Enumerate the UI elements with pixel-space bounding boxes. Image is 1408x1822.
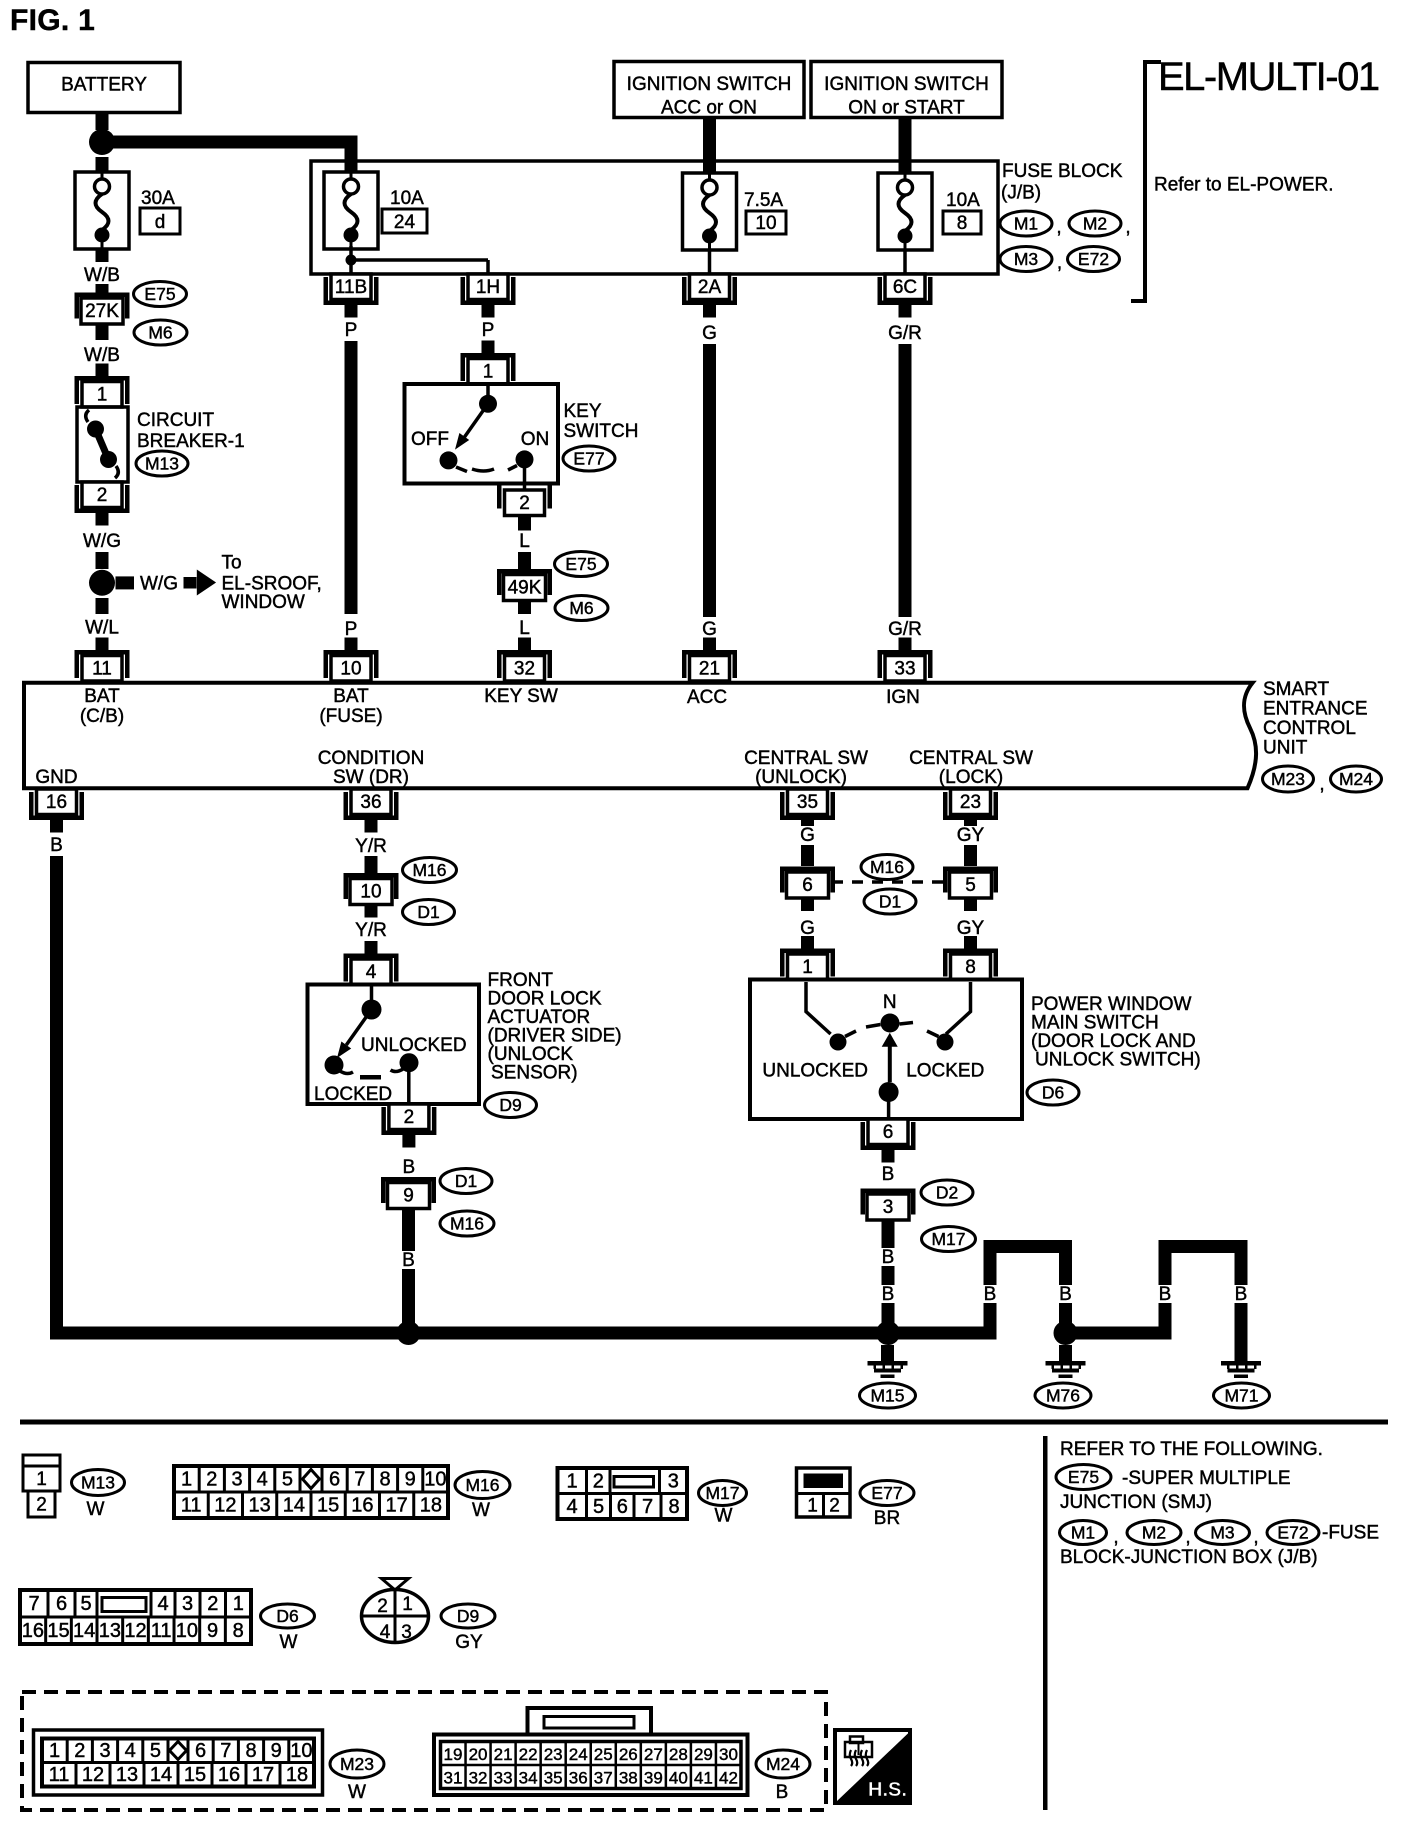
- svg-text:2: 2: [97, 485, 108, 506]
- svg-text:UNLOCKED: UNLOCKED: [762, 1061, 868, 1082]
- svg-text:2: 2: [829, 1496, 840, 1517]
- svg-text:ACC: ACC: [687, 687, 727, 708]
- svg-text:M17: M17: [931, 1229, 965, 1249]
- svg-text:UNLOCKED: UNLOCKED: [361, 1035, 467, 1056]
- svg-text:4: 4: [125, 1740, 136, 1762]
- svg-text:D1: D1: [417, 902, 439, 922]
- svg-text:BR: BR: [874, 1508, 900, 1529]
- svg-text:32: 32: [514, 659, 535, 680]
- svg-text:Refer to EL-POWER.: Refer to EL-POWER.: [1154, 175, 1334, 196]
- svg-text:2: 2: [377, 1596, 388, 1617]
- svg-text:B: B: [984, 1284, 997, 1305]
- svg-text:E77: E77: [871, 1483, 902, 1503]
- svg-text:FIG. 1: FIG. 1: [10, 4, 95, 37]
- svg-text:33: 33: [494, 1768, 513, 1787]
- svg-text:BAT: BAT: [333, 686, 369, 707]
- svg-text:2: 2: [36, 1495, 47, 1516]
- svg-text:D9: D9: [499, 1095, 521, 1115]
- svg-text:M16: M16: [465, 1475, 499, 1495]
- svg-text:10A: 10A: [390, 188, 424, 209]
- svg-text:-FUSE: -FUSE: [1322, 1523, 1379, 1544]
- svg-text:M76: M76: [1046, 1386, 1080, 1406]
- svg-text:M2: M2: [1142, 1523, 1166, 1543]
- svg-text:,: ,: [1185, 1527, 1190, 1548]
- svg-text:20: 20: [469, 1745, 488, 1764]
- svg-text:W: W: [715, 1506, 733, 1527]
- svg-text:D1: D1: [879, 892, 901, 912]
- svg-text:B: B: [1059, 1284, 1072, 1305]
- svg-text:13: 13: [99, 1620, 121, 1642]
- svg-text:UNIT: UNIT: [1263, 738, 1308, 759]
- svg-text:18: 18: [420, 1495, 442, 1517]
- svg-text:M24: M24: [766, 1754, 800, 1774]
- svg-text:W: W: [472, 1500, 490, 1521]
- svg-text:16: 16: [351, 1495, 373, 1517]
- svg-text:14: 14: [150, 1764, 172, 1786]
- svg-text:17: 17: [386, 1495, 408, 1517]
- svg-text:M1: M1: [1014, 214, 1038, 234]
- svg-text:39: 39: [644, 1768, 663, 1787]
- svg-text:B: B: [402, 1250, 415, 1271]
- svg-text:E77: E77: [573, 449, 604, 469]
- svg-text:M3: M3: [1210, 1523, 1234, 1543]
- svg-text:29: 29: [694, 1745, 713, 1764]
- svg-text:6: 6: [56, 1593, 67, 1615]
- svg-text:15: 15: [184, 1764, 206, 1786]
- svg-text:13: 13: [116, 1764, 138, 1786]
- svg-text:8: 8: [233, 1620, 244, 1642]
- svg-text:B: B: [1159, 1284, 1172, 1305]
- svg-text:12: 12: [214, 1495, 236, 1517]
- svg-text:2: 2: [593, 1470, 604, 1492]
- svg-text:M3: M3: [1014, 249, 1038, 269]
- svg-text:d: d: [155, 212, 166, 233]
- svg-text:M13: M13: [81, 1473, 115, 1493]
- svg-text:4: 4: [380, 1622, 391, 1643]
- svg-text:L: L: [519, 531, 530, 552]
- svg-text:E75: E75: [144, 284, 175, 304]
- svg-text:E72: E72: [1277, 1523, 1308, 1543]
- svg-text:18: 18: [286, 1764, 308, 1786]
- svg-text:W: W: [280, 1632, 298, 1653]
- svg-text:G: G: [702, 619, 717, 640]
- svg-text:37: 37: [594, 1768, 613, 1787]
- svg-text:49K: 49K: [508, 578, 542, 599]
- svg-text:(LOCK): (LOCK): [939, 767, 1003, 788]
- svg-text:D6: D6: [276, 1606, 298, 1626]
- svg-text:G: G: [800, 825, 815, 846]
- svg-text:36: 36: [360, 792, 381, 813]
- svg-text:3: 3: [231, 1469, 242, 1491]
- svg-text:D1: D1: [455, 1171, 477, 1191]
- svg-text:L: L: [519, 618, 530, 639]
- svg-text:W/G: W/G: [140, 574, 178, 595]
- svg-text:1: 1: [36, 1469, 47, 1490]
- svg-text:,: ,: [1057, 253, 1062, 274]
- svg-text:2: 2: [404, 1107, 415, 1128]
- svg-text:10: 10: [290, 1740, 312, 1762]
- svg-text:24: 24: [569, 1745, 588, 1764]
- svg-text:BREAKER-1: BREAKER-1: [137, 431, 245, 452]
- svg-text:35: 35: [797, 792, 818, 813]
- svg-text:10: 10: [424, 1469, 446, 1491]
- svg-text:BAT: BAT: [84, 686, 120, 707]
- svg-text:G/R: G/R: [888, 619, 922, 640]
- svg-text:34: 34: [519, 1768, 538, 1787]
- svg-text:5: 5: [80, 1593, 91, 1615]
- svg-text:D6: D6: [1042, 1083, 1064, 1103]
- svg-text:8: 8: [245, 1740, 256, 1762]
- svg-text:1: 1: [402, 1594, 413, 1615]
- svg-text:LOCKED: LOCKED: [314, 1084, 392, 1105]
- svg-text:M1: M1: [1071, 1523, 1095, 1543]
- svg-text:M6: M6: [569, 598, 593, 618]
- svg-text:B: B: [776, 1782, 789, 1803]
- svg-text:10: 10: [755, 213, 776, 234]
- svg-text:1: 1: [483, 362, 494, 383]
- svg-text:8: 8: [668, 1496, 679, 1518]
- svg-text:35: 35: [544, 1768, 563, 1787]
- svg-text:9: 9: [207, 1620, 218, 1642]
- svg-text:M2: M2: [1083, 214, 1107, 234]
- svg-text:B: B: [403, 1157, 416, 1178]
- svg-text:14: 14: [73, 1620, 95, 1642]
- svg-text:W/B: W/B: [84, 265, 120, 286]
- svg-text:G: G: [702, 323, 717, 344]
- svg-text:11: 11: [92, 659, 112, 680]
- svg-text:-SUPER MULTIPLE: -SUPER MULTIPLE: [1122, 1468, 1291, 1489]
- svg-text:M17: M17: [705, 1483, 739, 1503]
- svg-text:4: 4: [566, 1496, 577, 1518]
- svg-text:10A: 10A: [946, 190, 980, 211]
- svg-text:B: B: [1235, 1284, 1248, 1305]
- svg-text:E72: E72: [1078, 249, 1109, 269]
- svg-text:10: 10: [360, 882, 381, 903]
- svg-text:9: 9: [403, 1186, 414, 1207]
- svg-text:B: B: [50, 835, 63, 856]
- svg-text:7: 7: [220, 1740, 231, 1762]
- svg-text:SWITCH: SWITCH: [564, 421, 639, 442]
- svg-text:6: 6: [329, 1469, 340, 1491]
- svg-text:B: B: [882, 1164, 895, 1185]
- svg-text:2A: 2A: [698, 277, 722, 298]
- svg-text:IGNITION SWITCH: IGNITION SWITCH: [824, 74, 989, 95]
- svg-text:ENTRANCE: ENTRANCE: [1263, 699, 1368, 720]
- svg-text:(J/B): (J/B): [1001, 183, 1041, 204]
- svg-text:2: 2: [519, 493, 530, 514]
- svg-text:Y/R: Y/R: [355, 920, 387, 941]
- svg-text:M13: M13: [145, 454, 179, 474]
- svg-text:M24: M24: [1339, 769, 1373, 789]
- svg-text:CENTRAL SW: CENTRAL SW: [744, 748, 868, 769]
- svg-text:SW (DR): SW (DR): [333, 767, 409, 788]
- svg-text:WINDOW: WINDOW: [222, 592, 305, 613]
- svg-text:10: 10: [340, 659, 361, 680]
- svg-text:7: 7: [642, 1496, 653, 1518]
- svg-text:SMART: SMART: [1263, 679, 1330, 700]
- svg-text:32: 32: [469, 1768, 488, 1787]
- svg-text:6: 6: [883, 1122, 894, 1143]
- svg-text:5: 5: [593, 1496, 604, 1518]
- svg-text:3: 3: [883, 1197, 894, 1218]
- svg-text:E75: E75: [565, 554, 596, 574]
- svg-text:M16: M16: [412, 860, 446, 880]
- svg-text:15: 15: [317, 1495, 339, 1517]
- svg-text:6C: 6C: [893, 277, 917, 298]
- svg-text:7.5A: 7.5A: [744, 190, 783, 211]
- svg-text:W/L: W/L: [85, 618, 119, 639]
- svg-text:E75: E75: [1068, 1467, 1099, 1487]
- svg-text:3: 3: [99, 1740, 110, 1762]
- svg-text:25: 25: [594, 1745, 613, 1764]
- svg-text:SENSOR): SENSOR): [491, 1063, 578, 1084]
- svg-text:41: 41: [694, 1768, 713, 1787]
- svg-text:REFER TO THE FOLLOWING.: REFER TO THE FOLLOWING.: [1060, 1439, 1323, 1460]
- svg-text:7: 7: [354, 1469, 365, 1491]
- svg-text:W/B: W/B: [84, 345, 120, 366]
- svg-text:9: 9: [271, 1740, 282, 1762]
- svg-text:ON: ON: [521, 429, 550, 450]
- svg-text:ACC or ON: ACC or ON: [661, 98, 757, 119]
- svg-text:26: 26: [619, 1745, 638, 1764]
- svg-text:11: 11: [151, 1620, 172, 1642]
- svg-text:(FUSE): (FUSE): [319, 706, 382, 727]
- svg-text:1: 1: [566, 1470, 577, 1492]
- svg-text:GND: GND: [35, 767, 77, 788]
- svg-text:11: 11: [49, 1764, 70, 1786]
- svg-text:4: 4: [366, 962, 377, 983]
- svg-text:1: 1: [233, 1593, 244, 1615]
- svg-text:7: 7: [28, 1593, 39, 1615]
- svg-text:11: 11: [181, 1495, 202, 1517]
- svg-text:IGNITION SWITCH: IGNITION SWITCH: [627, 74, 792, 95]
- svg-text:3: 3: [182, 1593, 193, 1615]
- svg-text:G: G: [800, 918, 815, 939]
- svg-text:GY: GY: [957, 825, 985, 846]
- svg-text:B: B: [882, 1284, 895, 1305]
- svg-text:3: 3: [668, 1470, 679, 1492]
- svg-text:BATTERY: BATTERY: [61, 75, 147, 96]
- svg-text:42: 42: [719, 1768, 738, 1787]
- svg-text:FUSE BLOCK: FUSE BLOCK: [1002, 161, 1123, 182]
- svg-text:8: 8: [379, 1469, 390, 1491]
- svg-text:3: 3: [401, 1622, 412, 1643]
- svg-text:1: 1: [802, 957, 813, 978]
- svg-text:P: P: [345, 619, 358, 640]
- svg-text:27: 27: [644, 1745, 663, 1764]
- svg-text:1: 1: [49, 1740, 60, 1762]
- svg-text:21: 21: [699, 659, 720, 680]
- svg-text:KEY: KEY: [564, 401, 602, 422]
- svg-text:H.S.: H.S.: [868, 1779, 907, 1801]
- svg-text:D9: D9: [457, 1606, 479, 1626]
- svg-text:8: 8: [965, 957, 976, 978]
- svg-text:CONTROL: CONTROL: [1263, 718, 1356, 739]
- svg-text:6: 6: [802, 875, 813, 896]
- svg-text:(UNLOCK): (UNLOCK): [755, 767, 847, 788]
- svg-text:,: ,: [1319, 774, 1324, 795]
- svg-text:27K: 27K: [85, 301, 119, 322]
- svg-text:1: 1: [807, 1496, 818, 1517]
- svg-text:6: 6: [617, 1496, 628, 1518]
- svg-text:33: 33: [894, 659, 915, 680]
- svg-text:8: 8: [957, 213, 968, 234]
- svg-text:,: ,: [1253, 1527, 1258, 1548]
- svg-text:16: 16: [22, 1620, 44, 1642]
- svg-text:M71: M71: [1224, 1386, 1258, 1406]
- svg-text:,: ,: [1125, 217, 1130, 238]
- svg-text:W/G: W/G: [83, 531, 121, 552]
- svg-text:,: ,: [1056, 217, 1061, 238]
- svg-text:M23: M23: [1271, 769, 1305, 789]
- svg-text:D2: D2: [936, 1183, 958, 1203]
- svg-text:P: P: [482, 320, 495, 341]
- svg-text:,: ,: [1113, 1527, 1118, 1548]
- svg-text:Y/R: Y/R: [355, 836, 387, 857]
- svg-text:B: B: [882, 1247, 895, 1268]
- svg-text:2: 2: [207, 1593, 218, 1615]
- svg-text:40: 40: [669, 1768, 688, 1787]
- svg-text:EL-MULTI-01: EL-MULTI-01: [1158, 55, 1379, 99]
- svg-text:38: 38: [619, 1768, 638, 1787]
- svg-text:JUNCTION (SMJ): JUNCTION (SMJ): [1060, 1492, 1212, 1513]
- svg-text:M15: M15: [870, 1386, 904, 1406]
- svg-text:GY: GY: [455, 1632, 483, 1653]
- svg-text:To: To: [222, 553, 242, 574]
- svg-text:15: 15: [47, 1620, 69, 1642]
- svg-text:9: 9: [405, 1469, 416, 1491]
- svg-text:28: 28: [669, 1745, 688, 1764]
- svg-text:(C/B): (C/B): [80, 706, 124, 727]
- svg-text:30: 30: [719, 1745, 738, 1764]
- svg-text:23: 23: [544, 1745, 563, 1764]
- svg-text:17: 17: [252, 1764, 274, 1786]
- svg-text:KEY SW: KEY SW: [484, 686, 558, 707]
- svg-text:LOCKED: LOCKED: [906, 1061, 984, 1082]
- svg-text:M16: M16: [450, 1214, 484, 1234]
- svg-text:12: 12: [124, 1620, 146, 1642]
- svg-text:1: 1: [181, 1469, 192, 1491]
- svg-text:30A: 30A: [141, 188, 175, 209]
- svg-text:OFF: OFF: [411, 429, 449, 450]
- svg-text:5: 5: [965, 875, 976, 896]
- svg-text:1H: 1H: [476, 277, 500, 298]
- svg-text:BLOCK-JUNCTION BOX (J/B): BLOCK-JUNCTION BOX (J/B): [1060, 1547, 1318, 1568]
- svg-text:2: 2: [74, 1740, 85, 1762]
- svg-text:14: 14: [283, 1495, 305, 1517]
- svg-text:IGN: IGN: [886, 687, 920, 708]
- svg-text:16: 16: [46, 792, 67, 813]
- svg-text:31: 31: [444, 1768, 463, 1787]
- svg-text:2: 2: [206, 1469, 217, 1491]
- svg-text:5: 5: [282, 1469, 293, 1491]
- svg-text:W: W: [87, 1499, 105, 1520]
- svg-text:36: 36: [569, 1768, 588, 1787]
- svg-text:12: 12: [82, 1764, 104, 1786]
- svg-text:N: N: [883, 992, 897, 1013]
- svg-text:16: 16: [218, 1764, 240, 1786]
- svg-text:M23: M23: [340, 1754, 374, 1774]
- svg-text:CIRCUIT: CIRCUIT: [137, 410, 214, 431]
- svg-text:21: 21: [494, 1745, 513, 1764]
- svg-text:24: 24: [394, 212, 416, 233]
- svg-text:11B: 11B: [335, 277, 367, 298]
- svg-text:GY: GY: [957, 918, 985, 939]
- svg-text:M16: M16: [870, 857, 904, 877]
- svg-text:P: P: [345, 320, 358, 341]
- svg-text:19: 19: [444, 1745, 463, 1764]
- svg-text:4: 4: [257, 1469, 268, 1491]
- svg-text:6: 6: [195, 1740, 206, 1762]
- svg-text:23: 23: [960, 792, 981, 813]
- svg-text:10: 10: [176, 1620, 198, 1642]
- svg-text:UNLOCK SWITCH): UNLOCK SWITCH): [1035, 1050, 1201, 1071]
- svg-text:22: 22: [519, 1745, 538, 1764]
- svg-text:1: 1: [97, 385, 108, 406]
- svg-text:5: 5: [150, 1740, 161, 1762]
- svg-text:4: 4: [157, 1593, 168, 1615]
- svg-text:ON or START: ON or START: [848, 98, 965, 119]
- svg-text:G/R: G/R: [888, 323, 922, 344]
- svg-text:CONDITION: CONDITION: [318, 748, 425, 769]
- svg-text:M6: M6: [148, 323, 172, 343]
- svg-text:CENTRAL SW: CENTRAL SW: [909, 748, 1033, 769]
- svg-text:13: 13: [249, 1495, 271, 1517]
- svg-text:W: W: [348, 1782, 366, 1803]
